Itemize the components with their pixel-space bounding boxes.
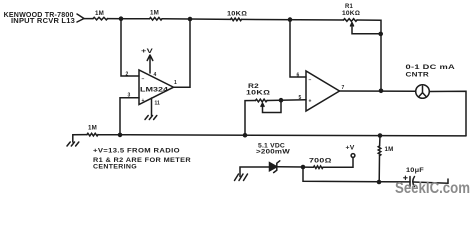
svg-text:1M: 1M bbox=[95, 10, 104, 17]
zener diode D1 5.1VDC >200mW bbox=[256, 143, 291, 173]
ground (U1a pin 11) bbox=[145, 116, 157, 120]
wire ground to zener bbox=[240, 167, 270, 177]
wire R1 wiper tap bbox=[351, 23, 382, 34]
node D junction (1M bottom) bbox=[377, 180, 382, 185]
svg-text:700Ω: 700Ω bbox=[309, 158, 332, 165]
wire R1 right end to corner down bbox=[357, 20, 381, 34]
input arrow chevron bbox=[77, 14, 84, 22]
pin 2 label bbox=[126, 72, 129, 78]
svg-text:1: 1 bbox=[174, 80, 177, 86]
node C1 junction bbox=[288, 17, 293, 22]
node A1 junction bbox=[119, 16, 124, 21]
wire node E down and right to capacitor bbox=[303, 167, 410, 182]
pin 4 label bbox=[154, 72, 157, 78]
wire R2 wiper tap bbox=[261, 100, 281, 112]
note text bbox=[93, 148, 191, 171]
potentiometer R1 10K bbox=[342, 3, 360, 21]
svg-text:7: 7 bbox=[342, 85, 345, 91]
wire meter to right edge corner down to rail bbox=[429, 91, 466, 136]
node rail 1M junction bbox=[378, 133, 383, 138]
pin 6 label bbox=[297, 73, 300, 79]
node rail pin3 junction bbox=[118, 133, 123, 138]
pin 5 label bbox=[299, 95, 302, 101]
svg-text:0-1 DC mA: 0-1 DC mA bbox=[406, 64, 456, 71]
wire node C1 down to pin 6 bbox=[290, 20, 306, 77]
svg-text:10KΩ: 10KΩ bbox=[227, 11, 247, 18]
wire output pin 7 to meter bbox=[340, 90, 416, 92]
node output junction bbox=[379, 89, 384, 94]
input source label KENWOOD TR-7800 INPUT RCVR L13 bbox=[4, 12, 75, 25]
+V supply arrow of U1a bbox=[141, 48, 154, 73]
svg-text:CENTERING: CENTERING bbox=[93, 164, 137, 171]
svg-text:10KΩ: 10KΩ bbox=[342, 10, 360, 17]
node B1 junction bbox=[188, 17, 193, 22]
svg-text:INPUT RCVR L13: INPUT RCVR L13 bbox=[11, 18, 75, 25]
svg-text:+V: +V bbox=[346, 145, 356, 152]
wire R2 to pin 5 bbox=[267, 99, 306, 102]
svg-text:11: 11 bbox=[155, 101, 161, 107]
pin 7 label bbox=[342, 85, 345, 91]
node R2 wiper junction bbox=[279, 98, 284, 103]
+V supply terminal bbox=[346, 145, 356, 158]
resistor 1M (input) bbox=[93, 10, 108, 20]
svg-text:CNTR: CNTR bbox=[406, 72, 430, 79]
svg-text:6: 6 bbox=[297, 73, 300, 79]
svg-text:+: + bbox=[142, 98, 145, 104]
resistor 700 ohm bbox=[303, 158, 332, 169]
svg-text:10KΩ: 10KΩ bbox=[246, 90, 270, 97]
wire pin 3 from reference rail bbox=[120, 98, 139, 135]
meter M1 0-1 DC mA CNTR bbox=[406, 64, 456, 98]
wire zener to node E bbox=[277, 166, 303, 168]
svg-text:+V=13.5 FROM RADIO: +V=13.5 FROM RADIO bbox=[93, 148, 180, 155]
op-amp U1a LM324 bbox=[139, 70, 174, 105]
resistor 1M (output load, vertical) bbox=[378, 146, 393, 156]
wire 1M to node B1 bbox=[162, 18, 231, 21]
resistor 1M (reference to ground) bbox=[87, 125, 98, 136]
pin 11 label bbox=[155, 101, 161, 107]
svg-text:LM324: LM324 bbox=[140, 87, 169, 94]
resistor 1M (series second) bbox=[150, 10, 163, 21]
svg-text:10μF: 10μF bbox=[406, 167, 424, 174]
wire 1M down to node D bbox=[378, 156, 380, 182]
potentiometer R2 10K bbox=[246, 83, 270, 102]
node rail R2 junction bbox=[243, 133, 248, 138]
node E junction (zener/700 ohm) bbox=[301, 165, 306, 170]
ground (zener) bbox=[235, 174, 248, 181]
svg-text:1M: 1M bbox=[385, 146, 394, 153]
resistor 10K (input of U1b) bbox=[227, 11, 247, 21]
wire 700 ohm to +V terminal bbox=[323, 157, 353, 167]
wire rail up to R2 bbox=[245, 101, 256, 136]
pin 11 ground wire bbox=[151, 98, 153, 116]
wire input to resistor bbox=[84, 18, 93, 20]
svg-text:1M: 1M bbox=[88, 125, 97, 132]
ground (reference divider) bbox=[67, 142, 79, 146]
pin 3 label bbox=[128, 93, 131, 99]
svg-text:>200mW: >200mW bbox=[256, 149, 291, 156]
svg-text:2: 2 bbox=[126, 72, 129, 78]
wire node A1 down to pin 2 bbox=[121, 19, 139, 76]
svg-text:+V: +V bbox=[141, 48, 154, 55]
wire 1M to node A1 bbox=[108, 18, 150, 20]
svg-text:1M: 1M bbox=[150, 10, 159, 17]
wire capacitor to stub bbox=[414, 179, 448, 183]
pin 1 label bbox=[174, 80, 177, 86]
wire 10K to node C1 bbox=[242, 18, 344, 21]
wire rail down to 1M bbox=[379, 136, 381, 146]
svg-text:4: 4 bbox=[154, 72, 157, 78]
op-amp U1b LM324 bbox=[306, 71, 340, 111]
svg-text:+: + bbox=[309, 99, 312, 105]
svg-text:R1: R1 bbox=[345, 3, 353, 10]
wire R1 node down to output node bbox=[380, 34, 382, 91]
svg-text:SeekIC.com: SeekIC.com bbox=[395, 180, 470, 197]
wire ground up to rail bbox=[73, 135, 87, 142]
svg-text:3: 3 bbox=[128, 93, 131, 99]
node R1 wiper junction bbox=[378, 32, 383, 37]
reference rail wire bbox=[98, 135, 466, 136]
wire output pin1 feedback up to node B1 bbox=[174, 19, 191, 87]
svg-text:5: 5 bbox=[299, 95, 302, 101]
svg-text:–: – bbox=[309, 78, 312, 84]
svg-text:–: – bbox=[142, 77, 145, 83]
capacitor C1 10uF polarized bbox=[404, 167, 424, 187]
